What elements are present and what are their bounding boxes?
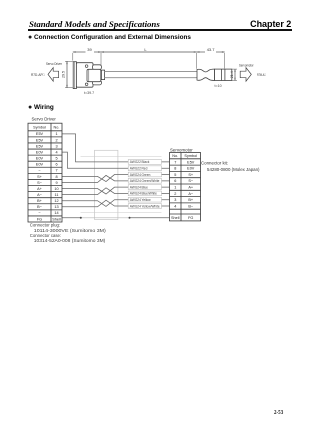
svg-text:E5V: E5V: [36, 144, 44, 148]
servomotor pin table: [170, 153, 201, 221]
svg-text:Yellow: Yellow: [142, 198, 152, 202]
svg-text:B+: B+: [37, 199, 43, 203]
cable jacket outline: [81, 156, 162, 158]
svg-text:AWG24: AWG24: [130, 173, 141, 177]
svg-text:FG: FG: [37, 217, 42, 221]
svg-text:39: 39: [87, 47, 92, 52]
shield junction node left: [80, 217, 82, 219]
svg-text:AWG24: AWG24: [130, 192, 141, 196]
svg-text:1: 1: [174, 186, 176, 190]
svg-text:Blue: Blue: [142, 185, 149, 189]
svg-text:B+: B+: [188, 198, 194, 202]
wire label AWG24 Green: [128, 172, 161, 177]
svg-text:Servo Driver: Servo Driver: [46, 62, 63, 66]
svg-text:9: 9: [55, 181, 57, 185]
servo driver pin table: [28, 123, 62, 222]
svg-text:Servomotor: Servomotor: [170, 148, 193, 153]
svg-text:Servo Driver: Servo Driver: [32, 116, 57, 121]
dimension L (cable length): [101, 51, 197, 52]
svg-text:5: 5: [55, 157, 57, 161]
header rule: [28, 29, 292, 31]
svg-text:S−: S−: [37, 181, 43, 185]
svg-text:Black: Black: [142, 160, 150, 164]
svg-text:6: 6: [55, 163, 57, 167]
svg-text:12: 12: [54, 199, 58, 203]
svg-text:E0V: E0V: [36, 150, 44, 154]
svg-text:29.5: 29.5: [61, 71, 65, 78]
svg-text:E5V: E5V: [36, 132, 44, 136]
svg-text:2: 2: [174, 192, 176, 196]
svg-text:Green: Green: [142, 173, 151, 177]
dimension 39 (driver connector width): [73, 51, 101, 66]
section heading 1: [28, 34, 191, 41]
block arrow to servomotor (right): [240, 68, 251, 82]
svg-text:No.: No.: [54, 125, 60, 129]
wire A+ pin10 to pin1 (twisted pair): [62, 187, 170, 194]
svg-text:AWG22: AWG22: [130, 167, 141, 171]
cable sheath outline: [95, 150, 118, 219]
svg-text:Shell: Shell: [52, 217, 61, 221]
svg-text:A+: A+: [188, 186, 194, 190]
wire A- pin11 to pin2 (twisted pair): [62, 188, 170, 195]
svg-text:7: 7: [174, 160, 176, 164]
wire E0V pin4 to pin8: [62, 152, 170, 168]
wire label AWG24 Yellow: [128, 197, 161, 202]
svg-text:A+: A+: [37, 187, 43, 191]
svg-text:3: 3: [174, 198, 176, 202]
svg-text:7: 7: [55, 169, 57, 173]
svg-text:43.7: 43.7: [207, 47, 216, 52]
svg-text:A−: A−: [188, 192, 194, 196]
svg-text:1: 1: [55, 132, 57, 136]
header chapter: [250, 19, 291, 29]
wire label AWG24 Blue: [128, 185, 161, 190]
svg-text:54280-0800 (Molex Japan): 54280-0800 (Molex Japan): [207, 167, 260, 172]
svg-text:Yellow/White: Yellow/White: [142, 204, 160, 208]
svg-text:4: 4: [55, 150, 57, 154]
svg-text:21.4: 21.4: [230, 71, 234, 78]
svg-text:10314-52A0-008 (Sumitomo 3M): 10314-52A0-008 (Sumitomo 3M): [34, 238, 106, 243]
svg-text:−: −: [38, 169, 41, 173]
wire S- pin9 to pin6 (twisted pair): [62, 175, 170, 182]
svg-text:Shell: Shell: [171, 216, 180, 220]
svg-text:B−: B−: [37, 205, 43, 209]
svg-text:Green/White: Green/White: [142, 179, 160, 183]
svg-text:FG: FG: [188, 216, 193, 220]
svg-text:AWG24: AWG24: [130, 198, 141, 202]
svg-text:Symbol: Symbol: [184, 154, 197, 158]
wire label AWG22 Red: [128, 166, 161, 171]
svg-text:Red: Red: [142, 167, 148, 171]
svg-text:S−: S−: [188, 179, 194, 183]
svg-text:t=39.7: t=39.7: [84, 91, 94, 95]
wire E5V pin1 to pin7: [62, 134, 170, 162]
servomotor connector body: [215, 69, 232, 80]
svg-text:2-53: 2-53: [274, 409, 283, 416]
wire label AWG22 Black: [128, 160, 161, 165]
svg-text:R7M-A□: R7M-A□: [257, 73, 266, 77]
wire B+ pin12 to pin3 (twisted pair): [62, 200, 170, 207]
svg-text:Blue/White: Blue/White: [142, 192, 158, 196]
block arrow to servo driver (left): [48, 68, 59, 82]
wire label AWG24 Green/White: [128, 178, 161, 183]
svg-text:t=10: t=10: [215, 84, 222, 88]
svg-text:S+: S+: [188, 173, 194, 177]
svg-text:6: 6: [174, 179, 176, 183]
svg-text:2: 2: [55, 138, 57, 142]
svg-text:−: −: [38, 211, 41, 215]
dimension 43.7 (motor connector length): [197, 51, 225, 69]
svg-text:10: 10: [54, 187, 58, 191]
svg-text:E0V: E0V: [187, 167, 195, 171]
svg-text:S+: S+: [37, 175, 43, 179]
svg-text:4: 4: [174, 204, 176, 208]
wire S+ pin8 to pin5 (twisted pair): [62, 175, 170, 182]
cable (two parallel lines): [105, 70, 197, 72]
svg-text:Connector kit:: Connector kit:: [201, 161, 228, 166]
svg-text:E5V: E5V: [187, 160, 195, 164]
section heading 2: [28, 104, 54, 111]
wire FG shield to shell: [62, 217, 81, 219]
svg-text:R7D-AP□: R7D-AP□: [31, 73, 45, 77]
svg-text:E5V: E5V: [36, 138, 44, 142]
wire B- pin13 to pin4 (twisted pair): [62, 200, 170, 207]
svg-text:14: 14: [54, 211, 58, 215]
svg-text:Symbol: Symbol: [33, 125, 46, 129]
svg-text:11: 11: [55, 193, 59, 197]
svg-text:5: 5: [174, 173, 176, 177]
shield junction node right: [129, 217, 131, 219]
svg-text:AWG24: AWG24: [130, 179, 141, 183]
svg-text:3: 3: [55, 144, 57, 148]
header title: [29, 19, 160, 29]
svg-text:A−: A−: [37, 193, 43, 197]
servomotor connector boot: [197, 69, 215, 80]
svg-text:8: 8: [174, 167, 176, 171]
svg-text:B−: B−: [188, 204, 194, 208]
wire label AWG24 Blue/White: [128, 191, 161, 196]
dimension 21.4 (motor connector height): [232, 69, 237, 80]
svg-text:8: 8: [55, 175, 57, 179]
dimension 29.5 (driver connector height): [65, 61, 73, 87]
svg-text:E0V: E0V: [36, 163, 44, 167]
svg-text:L: L: [144, 47, 147, 52]
svg-text:Servomotor: Servomotor: [239, 63, 254, 67]
servo driver connector (10114 plug side view): [73, 62, 104, 89]
svg-text:13: 13: [54, 205, 58, 209]
connector screws: [85, 65, 88, 68]
svg-text:AWG24: AWG24: [130, 204, 141, 208]
svg-text:AWG24: AWG24: [130, 185, 141, 189]
svg-text:AWG22: AWG22: [130, 160, 141, 164]
wire label AWG24 Yellow/White: [128, 204, 161, 209]
svg-text:No.: No.: [172, 154, 178, 158]
svg-text:E0V: E0V: [36, 157, 44, 161]
